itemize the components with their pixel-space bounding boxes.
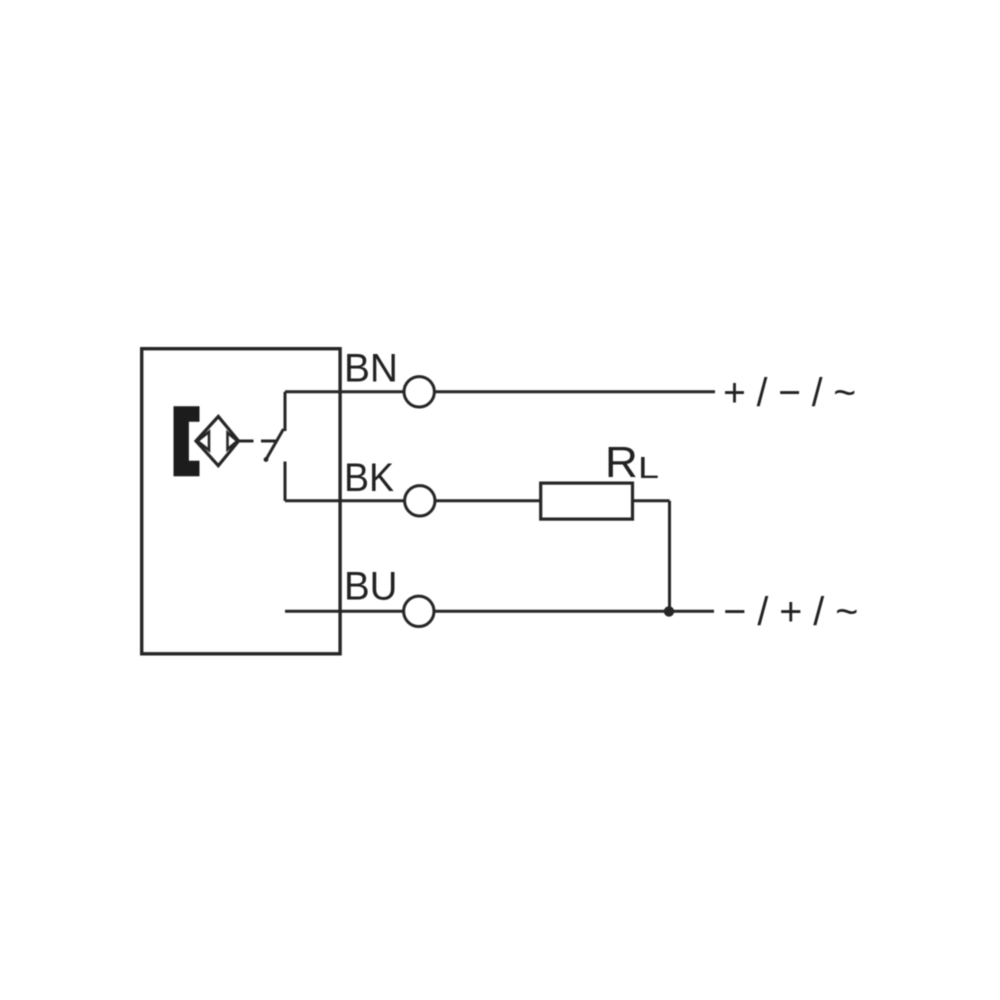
- svg-text:BN: BN: [344, 346, 398, 390]
- svg-text:L: L: [638, 450, 659, 485]
- svg-text:BU: BU: [344, 565, 398, 609]
- svg-text:− / + / ~: − / + / ~: [723, 590, 858, 634]
- svg-text:R: R: [605, 438, 638, 487]
- svg-text:BK: BK: [344, 456, 394, 500]
- svg-text:+ / − / ~: + / − / ~: [723, 371, 856, 415]
